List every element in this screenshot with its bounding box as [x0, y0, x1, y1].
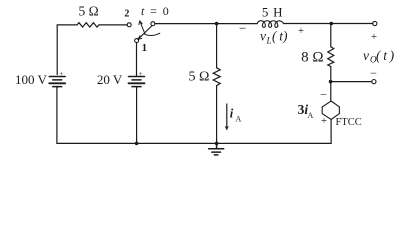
- wire: junction down to dependent source: [330, 82, 332, 101]
- svg-text:i: i: [230, 107, 234, 121]
- svg-text:v: v: [260, 28, 266, 43]
- switch motion arrow up: [140, 21, 145, 34]
- svg-text:A: A: [236, 115, 242, 124]
- switch motion arc: [145, 33, 160, 35]
- svg-text:FTCC: FTCC: [336, 117, 362, 128]
- svg-text:+: +: [139, 70, 143, 78]
- node junction dot bottom 20V: [135, 142, 139, 146]
- svg-text:+: +: [298, 25, 304, 37]
- svg-text:+: +: [371, 31, 377, 43]
- svg-text:−: −: [370, 66, 377, 80]
- wire: middle branch upper: [216, 24, 218, 68]
- resistor R 8ohm vertical: [328, 47, 334, 67]
- battery 100V: [49, 77, 65, 87]
- node 2 terminal circle: [127, 23, 131, 27]
- switch right terminal circle: [151, 22, 155, 26]
- svg-text:100 V: 100 V: [15, 72, 48, 87]
- wire: node1 to 20V battery: [136, 43, 138, 76]
- svg-text:A: A: [308, 111, 314, 120]
- svg-text:1: 1: [142, 42, 148, 54]
- svg-text:( t): ( t): [272, 28, 288, 43]
- wire: resistor to node 2 circle: [99, 24, 127, 26]
- svg-text:−: −: [239, 21, 246, 36]
- svg-text:5 H: 5 H: [262, 4, 284, 19]
- dependent source FTCC hexagon 3iA: [322, 101, 339, 119]
- svg-text:5 Ω: 5 Ω: [79, 4, 99, 19]
- svg-text:t = 0: t = 0: [141, 4, 170, 18]
- node junction dot middle top: [215, 22, 219, 26]
- svg-text:+: +: [321, 115, 327, 127]
- inductor L 5H: [257, 21, 283, 28]
- wire: switch right terminal to inductor: [155, 23, 257, 25]
- svg-text:8 Ω: 8 Ω: [301, 49, 323, 65]
- wire: dependent source to bottom rail: [330, 119, 332, 143]
- wire: 8ohm branch upper: [330, 24, 332, 47]
- svg-text:20 V: 20 V: [97, 72, 123, 87]
- wire: inductor to vo top terminal: [284, 23, 373, 25]
- node junction dot at 8ohm top: [330, 22, 334, 26]
- vo top terminal circle: [373, 21, 377, 25]
- ground: [209, 143, 224, 155]
- wire: middle branch lower: [216, 86, 218, 144]
- battery 20V: [129, 77, 145, 87]
- wire: 8ohm bottom to junction: [330, 67, 332, 82]
- svg-text:2: 2: [124, 9, 129, 20]
- svg-text:5 Ω: 5 Ω: [189, 70, 210, 85]
- switch blade from right terminal toward node 1 with arrowhead: [138, 26, 152, 39]
- svg-text:L: L: [266, 35, 272, 45]
- node junction dot at 8ohm bottom: [329, 80, 333, 84]
- svg-text:+: +: [59, 70, 63, 78]
- wire: bottom rail: [57, 88, 331, 144]
- node junction dot middle bottom: [215, 142, 219, 146]
- svg-text:−: −: [320, 87, 327, 101]
- resistor R 5ohm horizontal: [77, 23, 99, 27]
- vo bottom terminal circle: [372, 80, 376, 84]
- node 1 terminal circle: [135, 39, 139, 43]
- svg-text:v: v: [363, 48, 369, 63]
- wire: top-left segment from 100V branch to switch node 2: [57, 25, 77, 75]
- current arrow iA: [226, 104, 228, 129]
- svg-text:( t ): ( t ): [376, 48, 395, 63]
- wire: 20V battery to bottom rail: [136, 87, 138, 144]
- wire: junction to vo bottom terminal: [331, 81, 372, 83]
- resistor R 5ohm vertical: [213, 68, 220, 86]
